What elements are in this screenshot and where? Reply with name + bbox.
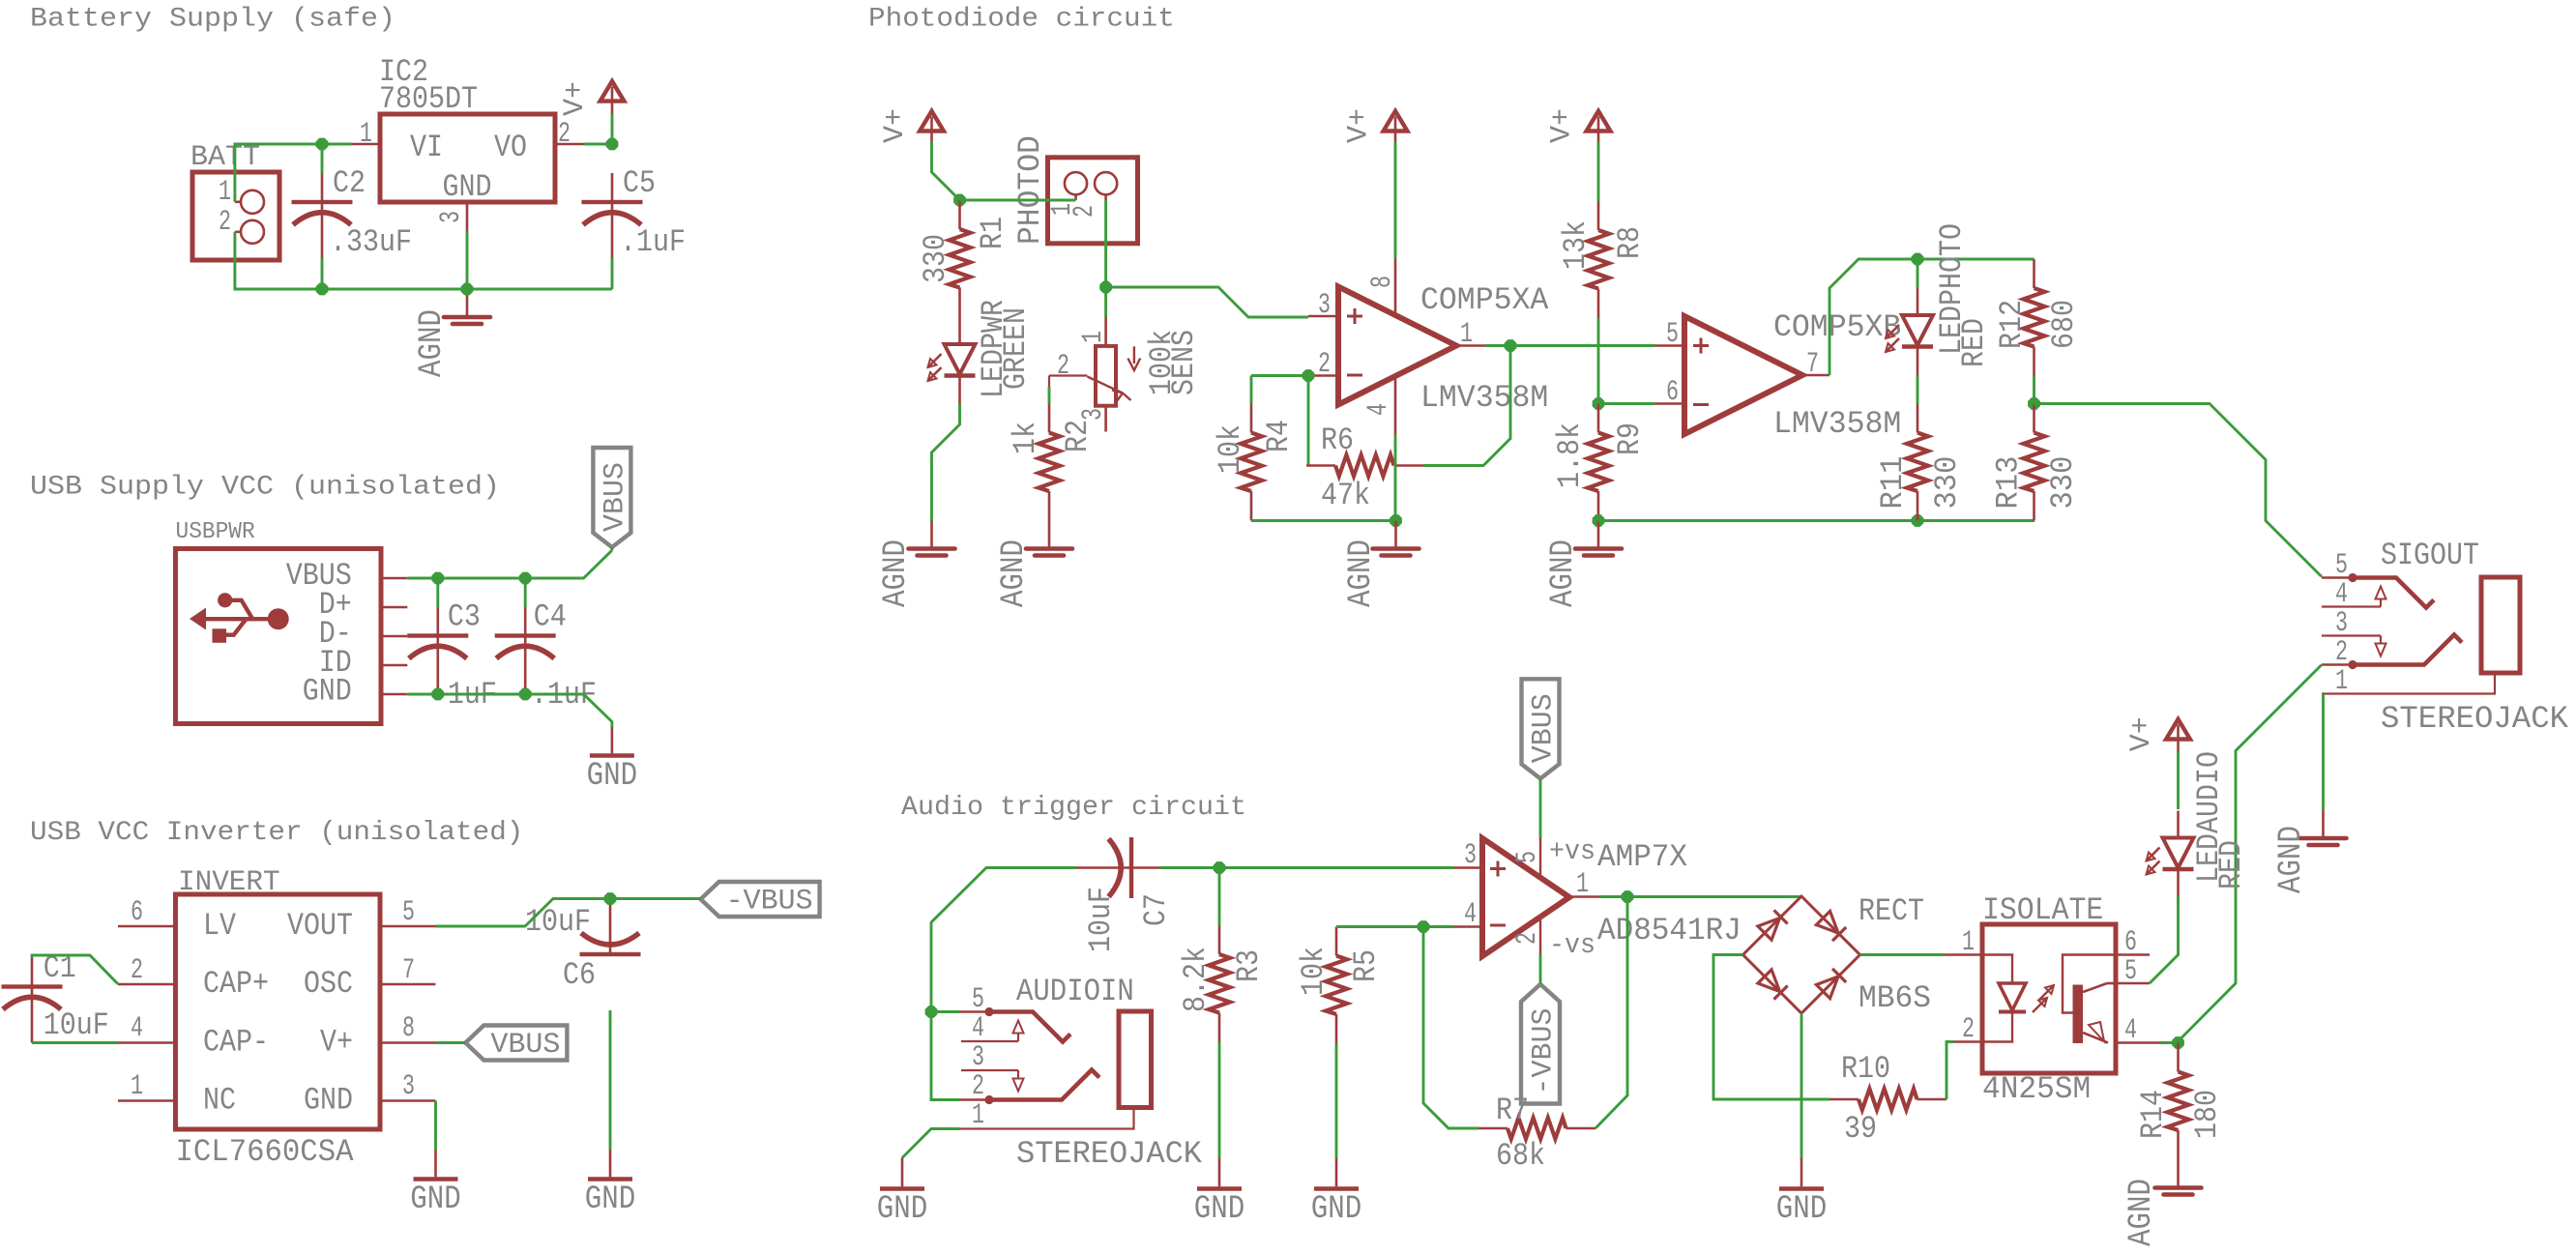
svg-text:V+: V+ bbox=[1343, 108, 1376, 143]
wire IC2 VO to C5 and V+ bbox=[584, 143, 612, 146]
wire R3 to GND bbox=[1218, 1042, 1221, 1158]
svg-text:-VBUS: -VBUS bbox=[1528, 1008, 1561, 1095]
svg-text:C6: C6 bbox=[563, 957, 596, 993]
power symbol V+ above COMP5XA bbox=[1384, 111, 1408, 131]
svg-text:CAP+: CAP+ bbox=[203, 966, 269, 1002]
svg-text:2: 2 bbox=[1068, 205, 1101, 218]
resistor R1 330 bbox=[958, 200, 961, 229]
wire junction at C2 top bbox=[316, 138, 328, 150]
supply flag -VBUS right of C6 bbox=[701, 882, 820, 917]
connector USBPWR box bbox=[176, 549, 382, 724]
svg-text:V+: V+ bbox=[879, 108, 912, 143]
COMP5XB pin 6 bbox=[1654, 402, 1684, 405]
svg-text:680: 680 bbox=[2046, 300, 2082, 349]
svg-text:R7: R7 bbox=[1496, 1093, 1529, 1128]
wire LEDPHOTO to R11 bbox=[1917, 375, 1919, 404]
wire R10 to ISOLATE pin2 bbox=[1947, 1042, 1953, 1100]
INVERT pin 8 bbox=[380, 1041, 436, 1044]
resistor R11 330 bbox=[1917, 404, 1919, 433]
INVERT pin 5 bbox=[380, 925, 436, 928]
capacitor C5 .1uF bbox=[611, 173, 614, 202]
ground AGND below SIGOUT bbox=[2322, 810, 2325, 837]
op-amp COMP5XB LMV358M bbox=[1684, 316, 1802, 434]
wire R8 to junction bbox=[1597, 318, 1600, 404]
wire C7 to junction and +input bbox=[1160, 866, 1453, 869]
resistor R5 10k bbox=[1335, 927, 1338, 956]
wire rectifier bottom to GND bbox=[1800, 1013, 1803, 1158]
svg-text:R9: R9 bbox=[1612, 423, 1648, 455]
svg-text:5: 5 bbox=[1666, 318, 1679, 351]
svg-text:5: 5 bbox=[402, 896, 415, 929]
wire comparator output to SIGOUT bbox=[2034, 404, 2323, 577]
ISOLATE pin 1 bbox=[1945, 953, 1982, 956]
wire junction bottom IC2 GND bbox=[461, 283, 473, 295]
capacitor C4 .1uF bbox=[524, 607, 527, 636]
capacitor C2 .33uF bbox=[321, 173, 324, 202]
SENS adjust arrow bbox=[1133, 346, 1135, 364]
svg-text:OSC: OSC bbox=[304, 966, 353, 1002]
PHOTOD pin 2 circle bbox=[1095, 172, 1117, 194]
wire junction ISOLATE pin4 bbox=[2173, 1037, 2184, 1049]
wire pin3 to GND bbox=[434, 1101, 437, 1151]
COMP5XB pin 5 bbox=[1654, 344, 1684, 347]
svg-text:1.8k: 1.8k bbox=[1552, 423, 1588, 488]
optocoupler ISOLATE 4N25SM box bbox=[1982, 924, 2116, 1073]
ISOLATE pin 4 emitter bbox=[2116, 1041, 2160, 1044]
svg-text:V+: V+ bbox=[320, 1025, 353, 1061]
svg-text:AGND: AGND bbox=[2273, 826, 2310, 893]
AMP7X pin 3 bbox=[1453, 866, 1482, 869]
resistor R14 180 bbox=[2177, 1043, 2180, 1072]
svg-text:V+: V+ bbox=[1546, 108, 1579, 143]
svg-text:Audio trigger circuit: Audio trigger circuit bbox=[901, 793, 1246, 823]
svg-text:10uF: 10uF bbox=[525, 904, 591, 940]
LED LEDAUDIO RED bbox=[2177, 811, 2180, 838]
svg-text:GND: GND bbox=[303, 674, 352, 710]
wire junction R9 bottom bbox=[1593, 515, 1604, 527]
wire junction C6 top bbox=[604, 893, 616, 905]
svg-text:3: 3 bbox=[1464, 839, 1477, 872]
svg-text:1: 1 bbox=[972, 1099, 984, 1132]
wire R5 to GND bbox=[1335, 1044, 1338, 1159]
COMP5XA pin 1 output bbox=[1456, 344, 1485, 347]
wire junction bottom C2 bbox=[316, 283, 328, 295]
ISOLATE phototransistor bbox=[2073, 985, 2084, 1044]
ground AGND below R14 bbox=[2177, 1160, 2180, 1187]
wire R5 top to -input net bbox=[1336, 925, 1453, 928]
ground GND below R5 bbox=[1335, 1158, 1338, 1186]
wire -input to R4 bbox=[1251, 374, 1308, 377]
svg-text:2: 2 bbox=[1318, 348, 1331, 381]
wire junction PHOTOD net bbox=[1100, 281, 1112, 293]
power symbol V+ left bbox=[920, 111, 944, 131]
resistor R9 1.8k bbox=[1597, 404, 1600, 433]
wire junction C4 VBUS bbox=[519, 572, 531, 584]
AMP7X pin 5 power bbox=[1539, 838, 1541, 878]
wire junction C3 VBUS bbox=[432, 572, 444, 584]
ground AGND below R2 bbox=[1048, 521, 1051, 548]
ground GND below USB bbox=[611, 727, 614, 754]
COMP5XA pin 2 bbox=[1308, 374, 1338, 377]
svg-text:COMP5XB: COMP5XB bbox=[1773, 309, 1901, 345]
svg-text:RED: RED bbox=[2213, 840, 2249, 889]
svg-text:GND: GND bbox=[877, 1191, 928, 1228]
svg-text:VO: VO bbox=[494, 130, 527, 165]
wire pin4 down to ground rail bbox=[1394, 435, 1397, 521]
wire V+ to R8 bbox=[1597, 142, 1600, 201]
SENS pin numbers bbox=[1077, 331, 1110, 343]
svg-text:2: 2 bbox=[1057, 350, 1069, 383]
wire junction COMP5XA -input bbox=[1303, 370, 1314, 382]
svg-text:-VBUS: -VBUS bbox=[726, 886, 813, 919]
wire pin8 to VBUS flag bbox=[436, 1041, 466, 1044]
wire C3 pins bbox=[436, 578, 439, 607]
wire junction R3 top bbox=[1214, 862, 1225, 874]
svg-text:1: 1 bbox=[131, 1070, 143, 1103]
svg-text:3: 3 bbox=[402, 1070, 415, 1103]
ISOLATE pin 2 bbox=[1953, 1040, 1982, 1043]
svg-text:R1: R1 bbox=[975, 217, 1010, 249]
svg-text:7: 7 bbox=[402, 954, 415, 987]
svg-text:GND: GND bbox=[304, 1083, 353, 1119]
supply flag -VBUS below AMP7X bbox=[1521, 984, 1560, 1104]
INVERT pin 3 bbox=[380, 1099, 436, 1102]
svg-text:+vs: +vs bbox=[1549, 835, 1595, 867]
svg-text:GREEN: GREEN bbox=[998, 307, 1034, 390]
svg-text:6: 6 bbox=[2124, 926, 2137, 959]
ground AGND below LEDPWR bbox=[930, 521, 933, 548]
svg-text:1: 1 bbox=[360, 118, 372, 151]
SIGOUT pin 2 contact bbox=[2322, 663, 2353, 666]
wire LEDPWR to AGND bbox=[932, 404, 960, 521]
INVERT pin 6 bbox=[118, 925, 176, 928]
svg-text:1k: 1k bbox=[1008, 422, 1043, 454]
svg-text:VOUT: VOUT bbox=[287, 908, 353, 944]
IC2 pin 2 bbox=[555, 143, 584, 146]
svg-text:LV: LV bbox=[203, 908, 237, 944]
svg-text:USBPWR: USBPWR bbox=[176, 519, 255, 545]
svg-text:5: 5 bbox=[972, 983, 984, 1016]
svg-text:1: 1 bbox=[1576, 868, 1589, 901]
USB trident icon bbox=[190, 593, 289, 643]
svg-text:C2: C2 bbox=[333, 165, 366, 201]
wire IC2 pin3 down bbox=[466, 231, 469, 289]
svg-text:7805DT: 7805DT bbox=[379, 81, 478, 117]
AMP7X pin 4 bbox=[1453, 925, 1482, 928]
svg-text:V+: V+ bbox=[559, 81, 592, 116]
wire junction C3 GND bbox=[432, 688, 444, 700]
svg-text:INVERT: INVERT bbox=[178, 866, 280, 899]
AUDIOIN pin 2 contact bbox=[960, 1098, 989, 1101]
svg-text:AGND: AGND bbox=[996, 540, 1033, 607]
wire junction R8 R9 divider bbox=[1593, 398, 1604, 410]
svg-text:1: 1 bbox=[1962, 926, 1975, 959]
ISOLATE internal LED bbox=[1982, 955, 2012, 984]
svg-text:2: 2 bbox=[1962, 1013, 1975, 1046]
wire R3 column bbox=[1218, 868, 1221, 926]
svg-text:GND: GND bbox=[443, 169, 492, 205]
svg-text:R12: R12 bbox=[1994, 300, 2030, 349]
svg-text:MB6S: MB6S bbox=[1859, 980, 1931, 1016]
wire R4 column top bbox=[1250, 376, 1253, 404]
svg-text:PHOTOD: PHOTOD bbox=[1012, 135, 1048, 245]
AUDIOIN pin 4 wiper bbox=[961, 1040, 1018, 1042]
svg-text:GND: GND bbox=[1311, 1191, 1362, 1228]
svg-text:1: 1 bbox=[1077, 331, 1110, 343]
svg-text:3: 3 bbox=[1077, 408, 1110, 421]
ground GND below AUDIOIN bbox=[901, 1158, 904, 1187]
bridge rectifier RECT MB6S bbox=[1743, 896, 1860, 1013]
wire VBUS flag to +Vs pin bbox=[1539, 778, 1542, 838]
svg-text:6: 6 bbox=[1666, 376, 1679, 409]
svg-text:USB Supply VCC (unisolated): USB Supply VCC (unisolated) bbox=[30, 473, 500, 503]
svg-text:GND: GND bbox=[1194, 1191, 1245, 1228]
svg-text:1: 1 bbox=[1460, 318, 1473, 351]
wire junction to LEDPHOTO bbox=[1917, 259, 1919, 288]
svg-text:180: 180 bbox=[2189, 1090, 2225, 1139]
wire junction -input bbox=[1418, 921, 1429, 933]
wire C1 bottom to CAP- bbox=[32, 1041, 118, 1044]
IC2 pin 1 bbox=[351, 143, 380, 146]
power symbol V+ above LEDAUDIO bbox=[2166, 719, 2190, 740]
wire rectifier minus to R10 bbox=[1713, 955, 1830, 1100]
INVERT pin 2 bbox=[118, 983, 176, 986]
wire PHOTOD junction down to SENS bbox=[1104, 287, 1107, 317]
op-amp COMP5XA LMV358M bbox=[1338, 287, 1456, 405]
LED LEDPHOTO RED bbox=[1917, 288, 1919, 315]
svg-text:VBUS: VBUS bbox=[490, 1029, 560, 1062]
wire divider to COMP5XB -input bbox=[1598, 402, 1654, 405]
svg-text:COMP5XA: COMP5XA bbox=[1420, 282, 1549, 318]
svg-text:2: 2 bbox=[972, 1070, 984, 1103]
COMP5XA pin 4 power bbox=[1394, 375, 1397, 435]
wire V+ to LEDAUDIO bbox=[2177, 751, 2180, 810]
wire SENS pin2 to R2 bbox=[1048, 387, 1051, 404]
INVERT pin 4 bbox=[118, 1041, 176, 1044]
SIGOUT pin 4 wiper bbox=[2322, 605, 2381, 607]
resistor R2 1k bbox=[1048, 404, 1051, 433]
svg-text:4: 4 bbox=[131, 1012, 143, 1045]
IC2 pin 3 bbox=[466, 202, 469, 231]
svg-text:RED: RED bbox=[1956, 318, 1992, 367]
svg-text:AGND: AGND bbox=[2123, 1179, 2160, 1246]
wire junction at AGND rail bbox=[1390, 515, 1402, 527]
svg-text:1: 1 bbox=[219, 176, 231, 209]
svg-text:LMV358M: LMV358M bbox=[1773, 406, 1901, 442]
wire C2 column bbox=[321, 144, 324, 173]
INVERT pin 7 bbox=[380, 983, 436, 986]
svg-text:2: 2 bbox=[131, 954, 143, 987]
svg-text:CAP-: CAP- bbox=[203, 1025, 269, 1061]
svg-text:330: 330 bbox=[918, 234, 953, 283]
svg-text:Photodiode circuit: Photodiode circuit bbox=[868, 5, 1175, 35]
resistor R10 39 bbox=[1830, 1098, 1859, 1101]
wire VOUT to C6 and -VBUS bbox=[436, 899, 701, 927]
svg-text:AGND: AGND bbox=[1545, 540, 1582, 607]
supply flag VBUS at pin8 bbox=[465, 1026, 567, 1061]
svg-text:.33uF: .33uF bbox=[330, 224, 412, 260]
wire bottom ground rail bbox=[235, 232, 612, 289]
connector BATT box bbox=[192, 172, 279, 260]
svg-text:4: 4 bbox=[1464, 898, 1477, 931]
svg-text:AGND: AGND bbox=[878, 540, 915, 607]
svg-text:ISOLATE: ISOLATE bbox=[1982, 892, 2103, 928]
wire -input net down to R7 bbox=[1423, 927, 1478, 1129]
svg-text:4: 4 bbox=[972, 1012, 984, 1045]
connector PHOTOD box bbox=[1048, 158, 1138, 244]
svg-text:2: 2 bbox=[2335, 636, 2348, 669]
svg-text:R6: R6 bbox=[1321, 423, 1354, 458]
SENS pin2 lead bbox=[1049, 374, 1087, 376]
SIGOUT pin 5 contact bbox=[2322, 576, 2353, 579]
ground GND below rectifier bbox=[1800, 1158, 1803, 1186]
wire C6 bottom to GND bbox=[609, 1010, 612, 1150]
svg-text:3: 3 bbox=[1318, 289, 1331, 322]
svg-text:-vs: -vs bbox=[1549, 929, 1595, 961]
svg-text:GND: GND bbox=[1776, 1191, 1828, 1228]
svg-text:AGND: AGND bbox=[1343, 540, 1380, 607]
SIGOUT jack body bbox=[2481, 577, 2520, 673]
svg-text:RECT: RECT bbox=[1859, 893, 1924, 929]
AUDIOIN jack body bbox=[1119, 1011, 1152, 1108]
AMP7X pin 1 output bbox=[1569, 895, 1599, 898]
capacitor C7 10uF bbox=[1075, 866, 1131, 869]
wire SIGOUT pin1 to AGND bbox=[2322, 694, 2325, 811]
svg-text:47k: 47k bbox=[1321, 478, 1370, 513]
SENS wiper diagonal bbox=[1087, 377, 1123, 394]
svg-text:68k: 68k bbox=[1496, 1138, 1545, 1174]
svg-text:AUDIOIN: AUDIOIN bbox=[1016, 974, 1134, 1009]
svg-text:SENS: SENS bbox=[1166, 330, 1202, 395]
wire junction R11 bottom bbox=[1912, 515, 1923, 527]
svg-text:R2: R2 bbox=[1060, 420, 1096, 452]
svg-text:R11: R11 bbox=[1875, 456, 1911, 510]
wire ground rail R4 to AGND bbox=[1251, 519, 1396, 522]
wire R6 right to output net bbox=[1423, 346, 1510, 466]
wire output to COMP5XB +input bbox=[1510, 344, 1654, 347]
svg-text:5: 5 bbox=[2124, 955, 2137, 988]
ground AGND below R9 bbox=[1597, 521, 1600, 548]
svg-text:2: 2 bbox=[219, 206, 231, 239]
svg-text:STEREOJACK: STEREOJACK bbox=[1016, 1136, 1203, 1172]
LED LEDPWR GREEN bbox=[958, 317, 961, 344]
svg-text:8: 8 bbox=[402, 1012, 415, 1045]
resistor R12 680 bbox=[2033, 259, 2035, 288]
svg-text:V+: V+ bbox=[2125, 716, 2158, 751]
svg-text:R10: R10 bbox=[1841, 1051, 1890, 1087]
svg-text:AGND: AGND bbox=[414, 309, 451, 377]
wire LEDAUDIO to ISOLATE pin5 bbox=[2150, 896, 2179, 983]
wire audio input to C7 bbox=[931, 868, 1075, 1012]
IC regulator IC2 7805DT box bbox=[380, 114, 555, 202]
svg-text:330: 330 bbox=[2045, 456, 2081, 510]
svg-text:SIGOUT: SIGOUT bbox=[2381, 538, 2479, 573]
svg-text:330: 330 bbox=[1929, 456, 1965, 510]
op-amp AMP7X AD8541RJ bbox=[1482, 838, 1569, 956]
svg-text:NC: NC bbox=[203, 1083, 236, 1119]
svg-text:7: 7 bbox=[1806, 348, 1819, 381]
capacitor C3 1uF bbox=[436, 607, 439, 636]
svg-text:R3: R3 bbox=[1231, 949, 1267, 982]
power symbol V+ above C5 bbox=[600, 81, 625, 102]
wire ground rail R9 to R13 bbox=[1598, 519, 2034, 522]
COMP5XA pin 8 power bbox=[1394, 259, 1397, 317]
svg-text:5: 5 bbox=[2335, 549, 2348, 582]
wire V+ to pin8 bbox=[1394, 142, 1397, 259]
BATT pin 1 circle bbox=[241, 190, 264, 214]
wire junction LEDPHOTO top bbox=[1912, 253, 1923, 265]
svg-text:2: 2 bbox=[1511, 932, 1544, 945]
PHOTOD pin 1 circle bbox=[1065, 172, 1087, 194]
svg-text:4: 4 bbox=[2335, 578, 2348, 611]
svg-text:4: 4 bbox=[2124, 1014, 2137, 1047]
svg-text:2: 2 bbox=[558, 118, 571, 151]
INVERT pin 1 bbox=[118, 1099, 176, 1102]
wire BATT to IC2 VI top rail bbox=[235, 144, 351, 202]
IC charge pump INVERT ICL7660CSA box bbox=[176, 894, 381, 1129]
wire junction at C5 top bbox=[606, 138, 618, 150]
svg-text:3: 3 bbox=[972, 1041, 984, 1074]
svg-text:Battery Supply (safe): Battery Supply (safe) bbox=[30, 5, 395, 35]
svg-text:GND: GND bbox=[585, 1181, 636, 1218]
svg-text:GND: GND bbox=[410, 1181, 461, 1218]
ground AGND below COMP5XA bbox=[1394, 521, 1397, 548]
supply flag VBUS bbox=[593, 448, 630, 547]
wire C5 column bottom bbox=[611, 258, 614, 289]
wire AUDIOIN pin2 net bbox=[931, 1012, 960, 1100]
capacitor C1 10uF bbox=[31, 958, 34, 987]
AUDIOIN pin 1 sleeve bbox=[959, 1108, 1134, 1129]
resistor R4 10k bbox=[1250, 404, 1253, 433]
wire junction R12 R13 bbox=[2029, 398, 2040, 410]
supply flag VBUS above AMP7X bbox=[1522, 679, 1560, 778]
svg-text:R5: R5 bbox=[1348, 949, 1384, 982]
svg-text:3: 3 bbox=[435, 211, 468, 223]
resistor R6 47k bbox=[1306, 464, 1335, 467]
svg-text:.1uF: .1uF bbox=[620, 224, 686, 260]
ISOLATE pin 6 base bbox=[2116, 953, 2150, 956]
SIGOUT pin 1 sleeve bbox=[2322, 673, 2495, 694]
wire -input net down to R6 bbox=[1307, 376, 1310, 466]
svg-text:VI: VI bbox=[410, 130, 443, 165]
svg-text:5: 5 bbox=[1511, 851, 1544, 863]
COMP5XA pin 3 bbox=[1308, 315, 1338, 318]
svg-text:VBUS: VBUS bbox=[1528, 693, 1561, 763]
wire PHOTOD pin2 down bbox=[1104, 200, 1107, 287]
svg-text:39: 39 bbox=[1844, 1111, 1877, 1147]
wire COMP5XB output up and right bbox=[1830, 259, 2034, 375]
ISOLATE internal light arrows bbox=[2033, 998, 2047, 1012]
svg-text:BATT: BATT bbox=[190, 141, 260, 174]
capacitor C6 10uF bbox=[609, 898, 612, 954]
svg-text:R4: R4 bbox=[1261, 420, 1297, 452]
svg-text:8.2k: 8.2k bbox=[1178, 947, 1214, 1012]
wire junction AUDIOIN input bbox=[925, 1006, 937, 1018]
wire AUDIOIN pin1 to GND bbox=[902, 1129, 959, 1158]
wire pin2 to -VBUS flag bbox=[1539, 954, 1542, 985]
wire V+ to R1 junction bbox=[932, 142, 960, 200]
svg-text:R8: R8 bbox=[1612, 226, 1648, 259]
svg-text:C5: C5 bbox=[623, 165, 656, 201]
svg-text:AMP7X: AMP7X bbox=[1597, 839, 1687, 875]
wire C4 pins bbox=[524, 578, 527, 607]
COMP5XB pin 7 output bbox=[1802, 374, 1830, 377]
svg-text:AD8541RJ: AD8541RJ bbox=[1597, 913, 1742, 948]
wire PHOTOD net to comparator +input bbox=[1106, 287, 1308, 317]
SENS labels bbox=[1144, 330, 1180, 395]
wire VBUS rail bbox=[407, 550, 612, 578]
svg-text:8: 8 bbox=[1366, 276, 1399, 288]
